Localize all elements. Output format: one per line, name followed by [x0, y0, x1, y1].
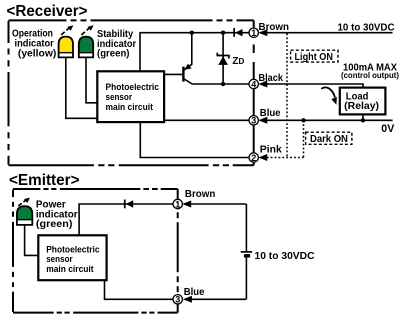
svg-text:Light ON: Light ON [295, 52, 333, 63]
Light ON dashed label box [291, 50, 338, 63]
svg-text:2: 2 [251, 153, 256, 163]
node: load junction on 0V line [361, 118, 365, 122]
svg-text:(Relay): (Relay) [344, 101, 379, 112]
LED D-OP operation indicator (yellow) [59, 37, 73, 58]
svg-text:Power: Power [36, 199, 66, 210]
load (relay) box [340, 88, 386, 115]
curved arrow into load [321, 87, 337, 104]
zener diode ZD vertical branch [222, 33, 224, 84]
wire: emitter +V from terminal 1 into main circuit [79, 204, 173, 235]
svg-text:<Emitter>: <Emitter> [9, 172, 80, 189]
svg-text:10 to 30VDC: 10 to 30VDC [255, 251, 315, 262]
svg-text:sensor: sensor [46, 254, 73, 264]
svg-text:10 to 30VDC: 10 to 30VDC [338, 22, 395, 33]
dotted select line: Light ON (to +V) [286, 34, 288, 158]
LED D-PW light-emission arrow (power indicator) [18, 198, 30, 206]
dotted select line: Dark ON (to 0V) [303, 120, 305, 157]
svg-text:sensor: sensor [106, 92, 133, 102]
label: Stability indicator (green) [97, 29, 136, 60]
svg-text:Pink: Pink [260, 144, 283, 155]
svg-text:Brown: Brown [185, 189, 216, 200]
svg-text:Dark ON: Dark ON [310, 134, 348, 145]
terminal 2 (Pink) [249, 153, 258, 163]
diode D1 (reverse protection, on +V rail) [233, 28, 242, 37]
LED D-PW power indicator (green) [17, 206, 32, 225]
label: Operation indicator (yellow) [12, 28, 56, 59]
wire: load to 0V line [362, 114, 364, 120]
wire: blue line from main circuit to terminal 3 [164, 119, 249, 121]
Dark ON dashed label box [306, 132, 352, 145]
LED D-ST light-emission arrow (green indicator) [81, 25, 93, 35]
label: Power indicator (green) [36, 199, 78, 230]
emitter photoelectric sensor main circuit box U2 [38, 235, 106, 280]
svg-text:(control output): (control output) [341, 71, 399, 80]
transistor Q1 (PNP output) [183, 33, 192, 84]
LED D-OP light-emission arrow (yellow indicator) [61, 25, 73, 35]
transistor Q1 base lead [164, 73, 182, 75]
wire: control output line from terminal 4 to load [258, 81, 363, 88]
svg-text:1: 1 [251, 28, 256, 38]
zener diode ZD symbol [217, 53, 229, 65]
battery BT1 (10 to 30VDC) [241, 252, 252, 256]
terminal 3 (emitter, Blue) [173, 295, 182, 305]
wire: yellow LED lead to main circuit [66, 57, 98, 118]
svg-text:(green): (green) [97, 49, 130, 60]
svg-text:Black: Black [259, 73, 284, 84]
terminal 1 (emitter, Brown) [173, 199, 182, 209]
svg-text:3: 3 [251, 116, 256, 126]
svg-text:(green): (green) [36, 219, 73, 230]
wire: +V supply line (10 to 30VDC) with arrow into terminal 1 [258, 29, 392, 36]
wire: 0V line with arrow into terminal 3 [258, 117, 392, 124]
LED D-ST stability indicator (green) [79, 37, 93, 58]
wire: output (black) from collector to terminal 4 [192, 83, 250, 85]
wire: +V rail from main circuit top to terminal 1 [140, 33, 249, 72]
svg-text:ZD: ZD [232, 56, 244, 67]
receiver photoelectric sensor main circuit box U1 [97, 71, 164, 122]
terminal 1 (Brown) [249, 28, 258, 38]
wire: emitter 0V from main circuit to terminal 3 [105, 280, 174, 299]
svg-text:0V: 0V [381, 123, 394, 135]
node: dark-on tap junction on 0V line [301, 118, 305, 122]
receiver enclosure (chain-dashed boundary) [9, 20, 254, 165]
svg-text:4: 4 [251, 79, 256, 89]
terminal 4 (Black) [249, 79, 258, 89]
wire: power LED lead to main circuit [25, 225, 39, 256]
node: zener bottom junction [221, 82, 225, 86]
dotted select line into terminal 2 with arrow [258, 154, 303, 161]
emitter enclosure (chain-dashed boundary) [13, 189, 178, 313]
wire: green LED lead to main circuit [86, 57, 97, 102]
svg-text:Photoelectric: Photoelectric [106, 82, 159, 92]
wire: battery - line with arrow into emitter terminal 3 [183, 257, 247, 303]
svg-text:Photoelectric: Photoelectric [46, 244, 99, 254]
svg-text:<Receiver>: <Receiver> [7, 3, 88, 20]
svg-text:1: 1 [175, 199, 180, 209]
terminal 3 (Blue) [249, 116, 258, 126]
svg-text:main circuit: main circuit [46, 264, 93, 274]
svg-text:Blue: Blue [184, 287, 205, 298]
node: emitter junction on +V rail [190, 31, 194, 35]
node: zener top junction [221, 31, 225, 35]
svg-text:(yellow): (yellow) [18, 49, 56, 60]
wire: pink select line from main circuit to terminal 2 [140, 122, 249, 157]
svg-text:Blue: Blue [260, 108, 281, 119]
svg-text:main circuit: main circuit [106, 102, 153, 112]
diode D2 (emitter reverse protection) [124, 200, 133, 209]
svg-text:3: 3 [175, 295, 180, 305]
wire: battery + line with arrow into emitter terminal 1 [182, 201, 246, 252]
